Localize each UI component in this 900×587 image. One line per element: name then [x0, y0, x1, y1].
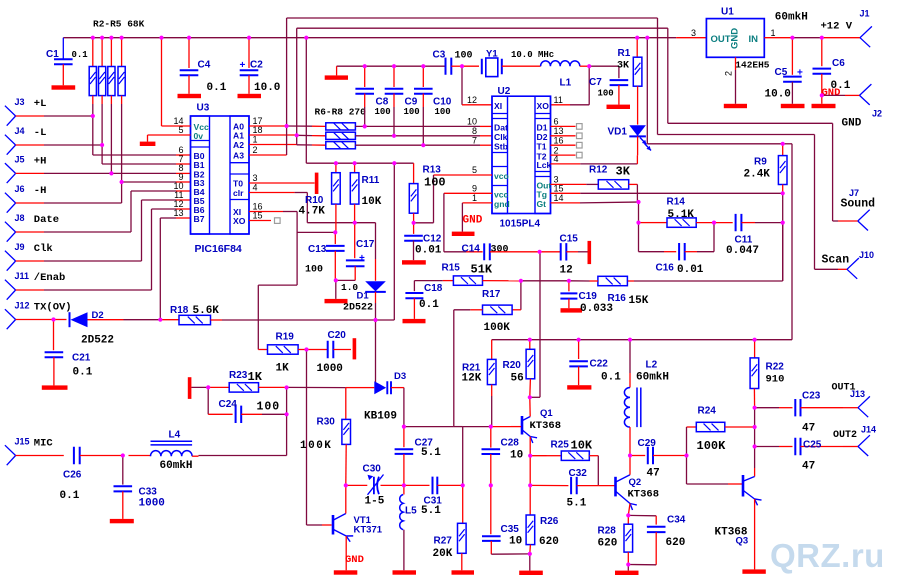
svg-text:60mkH: 60mkH [160, 460, 193, 472]
svg-text:R22: R22 [766, 362, 785, 373]
svg-text:Q3: Q3 [736, 536, 749, 547]
terminal square T1 [577, 142, 583, 148]
svg-text:51K: 51K [471, 262, 493, 276]
ground C1 [52, 85, 76, 89]
svg-text:0.01: 0.01 [415, 245, 442, 257]
svg-text:C26: C26 [63, 470, 82, 481]
wire B1 row to U3 pin 7 [102, 163, 176, 165]
junction [109, 171, 113, 175]
connector J1 [860, 26, 872, 47]
connector J6 -H [5, 193, 16, 213]
wire TX net down to D3 anode [375, 320, 377, 388]
svg-text:R14: R14 [667, 197, 686, 208]
connector J5 +H [5, 163, 16, 183]
wire C3 to Y1 [451, 65, 462, 67]
junction [636, 221, 640, 225]
svg-text:+: + [240, 60, 246, 71]
svg-text:C10: C10 [433, 97, 452, 108]
junction [353, 221, 357, 225]
resistor R24 100K [687, 426, 697, 428]
wire U2 T2 stub [551, 154, 576, 156]
svg-text:100: 100 [375, 107, 391, 117]
ground C6 [812, 104, 836, 108]
junction [392, 161, 396, 165]
ground C2 [238, 94, 262, 98]
junction [392, 64, 396, 68]
svg-text:L4: L4 [169, 429, 181, 440]
wire A3 pin2 to net V1 [249, 154, 287, 156]
capacitor C26 0.1 [74, 447, 80, 465]
wire U2 gnd pin1 route [462, 202, 492, 204]
junction [51, 317, 55, 321]
junction [91, 114, 95, 118]
junction [285, 412, 289, 416]
svg-text:R23: R23 [229, 370, 248, 381]
svg-text:10.0: 10.0 [765, 88, 791, 100]
junction [528, 552, 532, 556]
capacitor C18 0.1 [405, 293, 423, 298]
wire J9 Clk to B5 [16, 260, 44, 262]
resistor R3 [101, 38, 103, 67]
svg-text:C20: C20 [328, 330, 347, 341]
capacitor C19 0.033 [568, 281, 570, 292]
wire bus to U1 OUT pin 3 [676, 37, 706, 39]
connector J7 Sound [858, 210, 870, 231]
junction [635, 36, 639, 40]
wire L4 to C24 node [192, 455, 198, 457]
svg-text:-L: -L [34, 127, 47, 139]
svg-text:C21: C21 [72, 353, 91, 364]
junction [753, 425, 757, 429]
resistor R9 2.4K [782, 144, 784, 156]
ground C18 [403, 319, 426, 323]
wire D2 to node B7/R18 [88, 319, 124, 321]
wire U3 Vcc pin14 to bus [161, 38, 163, 126]
svg-text:A2: A2 [233, 140, 244, 150]
svg-text:5.1: 5.1 [567, 497, 587, 509]
svg-text:1.0: 1.0 [341, 282, 358, 293]
svg-text:J4: J4 [15, 126, 25, 136]
junction [363, 64, 367, 68]
svg-text:gnd: gnd [494, 199, 510, 209]
svg-text:3: 3 [253, 173, 258, 183]
wire J15 MIC to C26 [16, 455, 64, 457]
wire L1 to C7 node [580, 65, 589, 67]
svg-text:C2: C2 [250, 60, 263, 71]
inductor L2 60mkH [629, 340, 631, 373]
svg-text:14: 14 [554, 193, 564, 203]
junction [489, 425, 493, 429]
svg-text:C13: C13 [308, 244, 327, 255]
svg-text:-H: -H [34, 185, 47, 197]
svg-text:5: 5 [178, 125, 183, 135]
svg-text:Y1: Y1 [486, 49, 498, 60]
capacitor C24 100 [207, 388, 209, 415]
wire clr net down to D1 [375, 223, 377, 259]
transistor Q2 KT368 [614, 477, 617, 497]
svg-text:Sound: Sound [841, 198, 876, 211]
wire OUT2 row [755, 446, 779, 448]
junction [363, 124, 367, 128]
svg-text:+: + [797, 68, 803, 79]
wire U3 0v pin5 to ground [148, 134, 191, 136]
wire clr pin4 route [249, 192, 295, 194]
svg-text:U1: U1 [721, 7, 734, 18]
svg-text:C9: C9 [405, 97, 418, 108]
svg-text:620: 620 [539, 536, 559, 548]
wire U2 Lck pin4 to VD1 [551, 163, 581, 165]
svg-text:3: 3 [691, 28, 696, 38]
svg-text:47: 47 [802, 460, 815, 472]
svg-text:D1: D1 [357, 291, 370, 302]
svg-text:IN: IN [749, 34, 759, 45]
wire B0 row to U3 pin 6 [93, 154, 176, 156]
wire R17 left down to varicap node [453, 310, 455, 427]
wire OUT1 row [755, 407, 779, 409]
svg-text:10: 10 [509, 536, 522, 548]
svg-text:0v: 0v [194, 131, 204, 141]
svg-text:1K: 1K [276, 363, 290, 375]
svg-text:L1: L1 [560, 78, 572, 89]
junction [247, 36, 251, 40]
svg-text:0.047: 0.047 [726, 245, 759, 257]
junction [334, 161, 338, 165]
wire J6 -H to B3 [16, 202, 44, 204]
inductor L5 [403, 485, 405, 494]
junction [781, 191, 785, 195]
svg-text:J12: J12 [15, 301, 30, 311]
svg-text:2D522: 2D522 [343, 303, 373, 314]
wire R23 node to D3 anode row [287, 386, 346, 388]
svg-text:100: 100 [257, 401, 281, 414]
svg-text:1K: 1K [248, 370, 263, 384]
svg-text:1: 1 [253, 135, 258, 145]
svg-text:Q2: Q2 [629, 477, 642, 488]
connector J14 OUT2 [858, 435, 870, 456]
junction [109, 36, 113, 40]
capacitor C22 0.1 [578, 340, 580, 359]
connector J12 TX(OV) [5, 309, 16, 329]
svg-text:+L: +L [34, 98, 47, 110]
wire U2 Tg pin15 row to R9 [551, 192, 581, 194]
wire R24 left column to Q3 base [686, 427, 688, 456]
svg-text:1000: 1000 [317, 363, 343, 375]
svg-text:16: 16 [554, 135, 564, 145]
junction [100, 143, 104, 147]
junction [295, 133, 299, 137]
svg-text:R19: R19 [276, 332, 295, 343]
wire A1 pin18 row [249, 134, 297, 136]
svg-text:20K: 20K [433, 548, 453, 560]
svg-text:4.7K: 4.7K [299, 206, 326, 218]
svg-text:Lck: Lck [537, 160, 552, 170]
svg-text:0.01: 0.01 [677, 264, 704, 276]
resistor R11 10K [354, 163, 356, 173]
svg-text:vcc: vcc [494, 190, 509, 200]
resistor R15 51K [443, 280, 454, 282]
svg-text:Q1: Q1 [540, 408, 553, 419]
crystal Y1 10.0 MHc [482, 59, 502, 74]
svg-text:R15: R15 [442, 262, 461, 273]
capacitor C29 47 [630, 455, 645, 457]
wire net A0/A3 top run to Scan [287, 17, 658, 19]
svg-text:12: 12 [560, 265, 573, 277]
svg-text:R30: R30 [317, 417, 336, 428]
junction [304, 347, 308, 351]
resistor R2 [92, 38, 94, 67]
capacitor C14 300 [484, 243, 490, 260]
wire R4 bottom [110, 96, 112, 104]
inductor L1 [541, 61, 580, 66]
varicap D3 KB109 [403, 388, 405, 427]
resistor R28 620 [627, 515, 629, 524]
svg-text:XI: XI [494, 101, 502, 111]
junction [781, 221, 785, 225]
capacitor C25 47 [795, 438, 800, 455]
wire A0 pin17 row [249, 125, 287, 127]
wire VT1 emitter to ground [345, 536, 347, 570]
svg-text:J8: J8 [15, 213, 25, 223]
transistor Q3 KT368 [742, 475, 745, 497]
capacitor C32 5.1 [571, 477, 577, 494]
connector J11 /Enab [5, 280, 16, 300]
wire R16 row right end [782, 223, 784, 281]
junction [626, 562, 630, 566]
capacitor C2 polarized [248, 38, 250, 68]
svg-text:Tg: Tg [537, 190, 548, 200]
svg-text:10.0 MHc: 10.0 MHc [511, 50, 554, 60]
resistor R6 [326, 123, 356, 130]
ground C13 [325, 299, 348, 303]
svg-text:C30: C30 [363, 463, 382, 474]
capacitor C10 [422, 66, 424, 87]
ground Q3 [742, 569, 765, 573]
svg-text:R11: R11 [362, 175, 380, 186]
svg-text:OUT2: OUT2 [833, 430, 857, 441]
svg-text:+: + [359, 253, 365, 264]
capacitor C9 [393, 66, 395, 87]
resistor R17 100K [512, 309, 521, 311]
svg-text:J14: J14 [861, 424, 876, 434]
junction [790, 36, 794, 40]
ground C7 [607, 105, 631, 109]
junction [121, 453, 125, 457]
svg-text:VD1: VD1 [608, 127, 628, 138]
svg-text:13: 13 [173, 208, 183, 218]
terminal square XO [275, 218, 281, 224]
wire R15 left to C18 [414, 280, 442, 282]
svg-text:R1: R1 [618, 48, 631, 59]
ground R26 [519, 571, 543, 575]
capacitor C7 [618, 66, 620, 78]
IC U3 PIC16F84 box [191, 116, 250, 234]
svg-text:1015PL4: 1015PL4 [500, 219, 541, 230]
svg-text:C12: C12 [423, 234, 442, 245]
svg-text:C24: C24 [219, 399, 238, 410]
terminal bar C20 [353, 338, 357, 359]
junction [753, 406, 757, 410]
connector J15 MIC [5, 445, 16, 465]
connector J4 -L [5, 135, 16, 155]
svg-text:C19: C19 [579, 291, 598, 302]
resistor R23 1K [208, 386, 229, 388]
connector J10 Scan [847, 258, 859, 279]
diode D2 2D522 [69, 312, 71, 327]
junction [626, 513, 630, 517]
svg-text:100K: 100K [300, 440, 332, 452]
svg-text:1: 1 [472, 193, 477, 203]
svg-text:60mkH: 60mkH [636, 372, 669, 384]
svg-text:KT368: KT368 [628, 488, 660, 500]
svg-text:Date: Date [34, 214, 59, 226]
svg-text:A3: A3 [233, 151, 244, 161]
svg-text:QRZ.ru: QRZ.ru [770, 537, 885, 574]
capacitor C6 0.1 [821, 38, 823, 66]
svg-text:KT368: KT368 [530, 420, 562, 432]
svg-text:C25: C25 [803, 439, 822, 450]
capacitor C11 0.047 [714, 222, 733, 224]
junction [636, 200, 640, 204]
junction [587, 64, 591, 68]
svg-text:C5: C5 [775, 67, 788, 78]
svg-text:B7: B7 [194, 214, 205, 224]
svg-text:C14: C14 [462, 243, 481, 254]
junction [628, 453, 632, 457]
wire emitter node down [529, 456, 531, 486]
wire R9 bottom column [782, 193, 784, 281]
junction [489, 483, 493, 487]
svg-text:+12 V: +12 V [821, 20, 853, 32]
wire R28 to ground [627, 565, 629, 571]
junction [159, 36, 163, 40]
svg-text:R20: R20 [503, 360, 522, 371]
resistor R8 [326, 142, 356, 149]
diode D1 2D522 [365, 281, 386, 291]
svg-text:R13: R13 [423, 164, 442, 175]
resistor R21 12K [491, 340, 493, 360]
wire R12 right to Gt node [629, 183, 638, 185]
junction [120, 36, 124, 40]
resistor R1 3K [636, 38, 638, 58]
svg-text:0.1: 0.1 [72, 50, 89, 60]
wire T0 pin3 stub [249, 182, 315, 184]
svg-text:100K: 100K [484, 322, 511, 334]
svg-text:0.1: 0.1 [60, 490, 80, 502]
wire J3 +L [16, 115, 44, 117]
wire D3 cathode [391, 387, 404, 389]
svg-text:Stb: Stb [494, 141, 508, 151]
svg-text:L2: L2 [646, 359, 658, 370]
svg-text:10.0: 10.0 [254, 82, 280, 94]
svg-text:C28: C28 [501, 438, 520, 449]
svg-text:D3: D3 [394, 371, 406, 382]
wire V3 bus to pull-up rail [305, 38, 307, 164]
capacitor C17 polarized [354, 223, 356, 259]
svg-text:15K: 15K [629, 295, 649, 307]
svg-text:47: 47 [647, 468, 660, 480]
svg-text:XO: XO [233, 216, 246, 226]
svg-text:R25: R25 [551, 440, 570, 451]
wire U2 Gt pin14 row [551, 202, 581, 204]
svg-text:MIC: MIC [34, 438, 54, 450]
wire C30 to C27 node [381, 484, 404, 486]
wire Q3 emitter to ground [754, 499, 756, 569]
svg-text:R26: R26 [540, 516, 559, 527]
junction [528, 395, 532, 399]
junction [684, 453, 688, 457]
svg-text:R18: R18 [170, 305, 189, 316]
capacitor C4 [188, 38, 190, 68]
resistor R10 4.7K [335, 163, 337, 173]
capacitor C16 0.01 loop [638, 223, 640, 252]
capacitor C3 [446, 58, 452, 75]
wire R26 bottom to ground [529, 554, 531, 571]
capacitor C8 [364, 66, 366, 87]
svg-text:300: 300 [491, 244, 509, 255]
svg-text:C17: C17 [356, 239, 375, 250]
svg-text:0.1: 0.1 [419, 299, 439, 311]
terminal bar C15 [588, 241, 592, 264]
IC U1 142EH5 box [706, 19, 764, 58]
wire R25 right down to C32 node [597, 456, 599, 486]
ground C22 [567, 385, 591, 389]
terminal square T2 [577, 152, 583, 158]
wire XI pin16 route to R19 [249, 211, 283, 213]
svg-text:C15: C15 [560, 233, 579, 244]
svg-text:KB109: KB109 [364, 411, 397, 423]
svg-text:GND: GND [463, 214, 483, 226]
wire Gt node down to R14 row [638, 202, 640, 223]
svg-text:R17: R17 [482, 289, 501, 300]
terminal bar R23 [188, 377, 192, 399]
ground L5 [393, 570, 417, 574]
svg-text:0.1: 0.1 [73, 367, 93, 379]
ground U2 gnd [452, 232, 475, 236]
junction [344, 483, 348, 487]
svg-text:10K: 10K [362, 196, 382, 208]
svg-text:GND: GND [822, 87, 841, 99]
svg-text:J3: J3 [15, 97, 25, 107]
ground C4 [178, 94, 202, 98]
svg-text:1000: 1000 [139, 498, 165, 510]
svg-text:C1: C1 [46, 49, 59, 60]
wire U2 D1 stub [551, 125, 576, 127]
svg-text:C4: C4 [198, 60, 211, 71]
IC U2 1015PL4 box [492, 96, 551, 213]
junction [645, 36, 649, 40]
junction [820, 36, 824, 40]
wire Clk row [355, 135, 480, 137]
svg-text:J5: J5 [15, 154, 25, 164]
resistor R25 10K [530, 455, 546, 457]
svg-text:C3: C3 [433, 50, 446, 61]
junction [577, 338, 581, 342]
junction [528, 483, 532, 487]
svg-text:3K: 3K [616, 165, 631, 179]
wire +5V top bus [63, 37, 676, 39]
svg-text:60mkH: 60mkH [775, 11, 808, 23]
svg-text:11: 11 [554, 95, 563, 105]
wire J4 -L [16, 144, 44, 146]
svg-text:U3: U3 [197, 103, 210, 114]
svg-text:C23: C23 [802, 391, 821, 402]
svg-text:C22: C22 [590, 359, 609, 370]
svg-text:C29: C29 [638, 438, 657, 449]
wire J12 TX row [16, 319, 54, 321]
junction [528, 454, 532, 458]
junction [100, 36, 104, 40]
svg-text:C16: C16 [656, 263, 675, 274]
